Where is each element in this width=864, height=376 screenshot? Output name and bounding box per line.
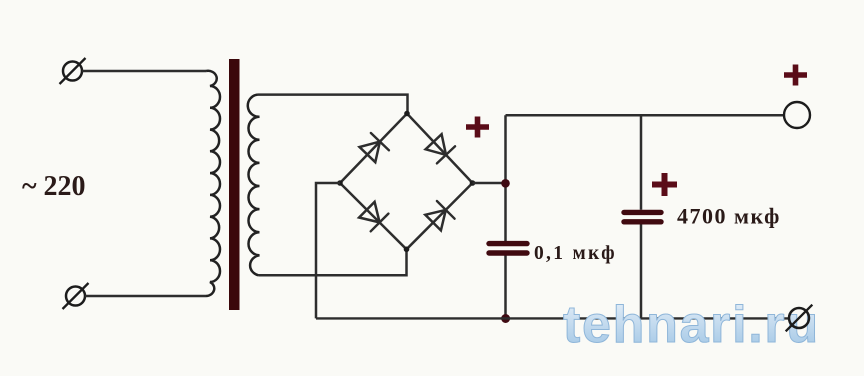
wire minus rail bottom: [316, 317, 789, 319]
svg-text:4700 мкф: 4700 мкф: [677, 204, 781, 229]
wire input top: [82, 70, 206, 73]
node bridge bottom: [404, 247, 410, 253]
terminal output minus: [786, 305, 813, 332]
node bridge top: [404, 111, 410, 117]
wire bridge right to plus node: [473, 182, 506, 185]
terminal X1 input top: [60, 58, 86, 84]
node bridge right: [470, 180, 476, 186]
svg-text:~ 220: ~ 220: [22, 171, 86, 202]
capacitor C2: [624, 212, 661, 221]
node minus junction: [501, 314, 510, 323]
terminal output plus: [784, 102, 810, 128]
label plus bridge output: [466, 117, 489, 138]
wire secondary bottom to bridge: [259, 249, 407, 275]
transformer T1 core: [229, 59, 240, 310]
svg-text:tehnari.ru: tehnari.ru: [563, 296, 820, 354]
diode VD2 top-right: [426, 134, 456, 163]
wire plus rail top: [506, 114, 784, 117]
diode VD1 top-left: [360, 133, 389, 162]
node bridge left: [337, 180, 343, 186]
transformer T1 secondary winding: [248, 95, 260, 276]
svg-text:0,1 мкф: 0,1 мкф: [534, 243, 617, 264]
wire bridge left to minus rail: [316, 183, 340, 318]
bridge diamond wiring: [340, 114, 473, 250]
node plus junction: [501, 179, 510, 188]
terminal X2 input bottom: [63, 283, 89, 309]
wire C2 branch: [640, 115, 643, 318]
diode VD4 bottom-right: [425, 201, 454, 230]
label plus output: [784, 65, 807, 86]
label plus C2: [652, 173, 677, 196]
wire secondary top to bridge: [258, 95, 408, 114]
diode VD3 bottom-left: [359, 202, 388, 231]
transformer T1 primary winding: [206, 71, 220, 296]
capacitor C1: [489, 244, 527, 253]
wire C1 branch: [504, 115, 507, 318]
wire input bottom: [85, 295, 206, 297]
